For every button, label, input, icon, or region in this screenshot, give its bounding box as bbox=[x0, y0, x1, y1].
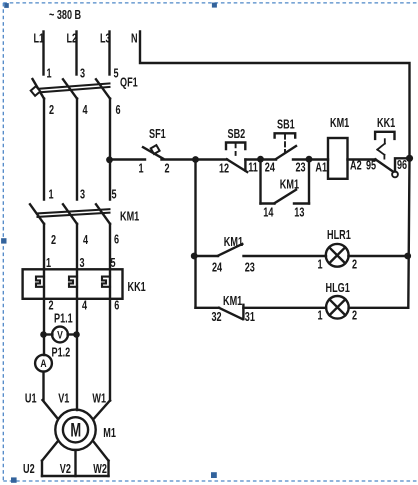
svg-text:U2: U2 bbox=[23, 463, 35, 477]
svg-text:13: 13 bbox=[294, 206, 304, 220]
svg-text:1: 1 bbox=[46, 257, 51, 271]
svg-text:3: 3 bbox=[80, 257, 85, 271]
svg-text:4: 4 bbox=[83, 234, 89, 248]
svg-text:11: 11 bbox=[248, 161, 258, 175]
svg-text:24: 24 bbox=[265, 161, 276, 175]
svg-text:KM1: KM1 bbox=[330, 117, 349, 131]
svg-text:KM1: KM1 bbox=[120, 210, 139, 224]
svg-text:1: 1 bbox=[49, 188, 54, 202]
svg-text:95: 95 bbox=[366, 159, 376, 173]
svg-text:6: 6 bbox=[114, 233, 119, 247]
svg-text:3: 3 bbox=[80, 67, 85, 81]
svg-text:2: 2 bbox=[165, 162, 170, 176]
svg-text:HLR1: HLR1 bbox=[327, 229, 351, 243]
svg-text:SF1: SF1 bbox=[149, 128, 166, 142]
svg-text:5: 5 bbox=[112, 188, 117, 202]
svg-text:2: 2 bbox=[51, 234, 56, 248]
svg-text:KK1: KK1 bbox=[128, 281, 146, 295]
svg-text:31: 31 bbox=[245, 311, 255, 325]
svg-text:1: 1 bbox=[47, 67, 52, 81]
svg-text:4: 4 bbox=[83, 104, 89, 118]
svg-text:KK1: KK1 bbox=[377, 117, 395, 131]
svg-text:2: 2 bbox=[352, 258, 357, 272]
svg-text:A2: A2 bbox=[350, 159, 362, 173]
svg-text:24: 24 bbox=[212, 261, 223, 275]
svg-text:L1: L1 bbox=[34, 32, 45, 46]
svg-text:2: 2 bbox=[352, 309, 357, 323]
svg-text:V2: V2 bbox=[60, 463, 71, 477]
svg-text:14: 14 bbox=[263, 206, 274, 220]
svg-text:SB2: SB2 bbox=[228, 128, 246, 142]
svg-text:V: V bbox=[57, 329, 63, 341]
svg-text:1: 1 bbox=[318, 258, 323, 272]
svg-text:P1.1: P1.1 bbox=[54, 312, 73, 326]
svg-text:N: N bbox=[131, 32, 138, 46]
svg-text:2: 2 bbox=[49, 299, 54, 313]
svg-text:W2: W2 bbox=[93, 463, 107, 477]
svg-text:23: 23 bbox=[296, 161, 306, 175]
svg-text:5: 5 bbox=[111, 257, 116, 271]
svg-text:~ 380 В: ~ 380 В bbox=[49, 9, 81, 23]
svg-text:KM1: KM1 bbox=[223, 295, 242, 309]
svg-text:1: 1 bbox=[139, 162, 144, 176]
svg-text:HLG1: HLG1 bbox=[326, 282, 350, 296]
svg-text:12: 12 bbox=[219, 162, 229, 176]
svg-text:3: 3 bbox=[80, 188, 85, 202]
svg-text:A: A bbox=[40, 358, 46, 370]
svg-text:23: 23 bbox=[245, 261, 255, 275]
svg-text:32: 32 bbox=[212, 311, 222, 325]
svg-text:5: 5 bbox=[114, 67, 119, 81]
svg-text:QF1: QF1 bbox=[120, 76, 138, 90]
svg-text:4: 4 bbox=[82, 299, 88, 313]
svg-text:SB1: SB1 bbox=[277, 118, 295, 132]
svg-text:2: 2 bbox=[49, 104, 54, 118]
svg-text:U1: U1 bbox=[25, 392, 37, 406]
svg-text:V1: V1 bbox=[58, 392, 69, 406]
svg-text:A1: A1 bbox=[315, 161, 327, 175]
svg-text:M1: M1 bbox=[103, 427, 116, 441]
svg-text:M: M bbox=[70, 420, 81, 441]
svg-text:6: 6 bbox=[116, 104, 121, 118]
svg-text:KM1: KM1 bbox=[224, 236, 243, 250]
svg-text:1: 1 bbox=[318, 309, 323, 323]
svg-text:96: 96 bbox=[397, 159, 407, 173]
svg-text:6: 6 bbox=[114, 299, 119, 313]
svg-text:KM1: KM1 bbox=[280, 178, 299, 192]
svg-text:L3: L3 bbox=[100, 32, 111, 46]
svg-text:L2: L2 bbox=[67, 32, 78, 46]
svg-text:P1.2: P1.2 bbox=[52, 346, 71, 360]
svg-text:W1: W1 bbox=[92, 392, 106, 406]
